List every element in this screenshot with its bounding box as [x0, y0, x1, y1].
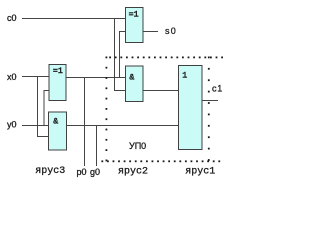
wire c0 drop to AND2 input	[115, 19, 127, 91]
svg-text:ярус2: ярус2	[118, 167, 148, 178]
svg-text:=1: =1	[129, 10, 139, 19]
svg-text:ярус3: ярус3	[35, 166, 65, 177]
gate OR1 (c1 = c0*p0 + g0)	[179, 66, 203, 150]
svg-text:c1: c1	[212, 84, 223, 94]
dotted divider right vertical	[208, 57, 210, 161]
wire c1 output	[202, 100, 218, 102]
gate AND2 (c0 and p0)	[126, 66, 144, 102]
wire AND2 output to OR1	[143, 90, 179, 92]
svg-text:c0: c0	[7, 13, 17, 23]
wire p0 rise to XOR1 input	[120, 32, 126, 78]
wire s0 output	[143, 31, 158, 33]
gate XOR2 (p0 = x0 xor y0)	[49, 65, 66, 101]
wire p0 drop to label	[84, 78, 86, 167]
gate AND1 (g0 = x0 and y0)	[49, 112, 67, 150]
svg-text:g0: g0	[90, 167, 100, 177]
svg-text:x0: x0	[7, 72, 17, 82]
wire g0 drop to label	[96, 126, 98, 167]
svg-text:&: &	[129, 73, 134, 82]
wire g0 net from AND1 output	[67, 125, 179, 127]
wire x0 drop to AND1 input	[38, 77, 50, 137]
svg-text:УП0: УП0	[129, 141, 146, 151]
dotted divider left vertical	[106, 57, 108, 162]
svg-text:=1: =1	[53, 67, 63, 76]
svg-text:1: 1	[182, 72, 187, 81]
svg-text:&: &	[53, 118, 58, 127]
gate XOR1 (s0 = p0 xor c0)	[126, 8, 144, 43]
wire x0 horizontal	[22, 76, 50, 78]
svg-text:y0: y0	[7, 120, 17, 130]
dotted divider bottom horizontal	[101, 160, 220, 162]
dotted divider top horizontal	[109, 57, 223, 59]
svg-text:s0: s0	[165, 26, 177, 36]
wire y0 rise to XOR2 input	[44, 91, 50, 126]
wire y0 horizontal	[22, 125, 49, 127]
svg-text:ярус1: ярус1	[185, 167, 215, 178]
svg-text:p0: p0	[77, 167, 87, 177]
wire p0 net from XOR2 output	[66, 77, 126, 79]
wire c0 horizontal	[22, 18, 126, 20]
